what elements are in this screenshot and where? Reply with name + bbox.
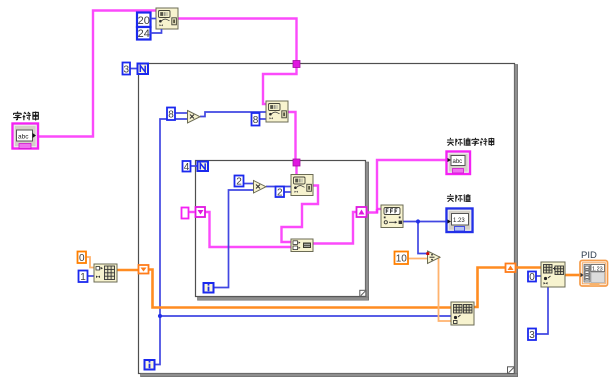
wire pink F1 out to outer tunnel xyxy=(178,19,297,62)
wire blue inner i to multiply2 xyxy=(214,190,253,288)
outer for-loop body xyxy=(139,64,518,377)
svg-text:0: 0 xyxy=(79,253,85,264)
PID array indicator xyxy=(580,261,608,287)
multiply node 2 xyxy=(254,181,267,194)
wire orange array left SR to replace node xyxy=(149,270,451,308)
shift register right pink xyxy=(357,207,367,217)
wire pink concat out to right shift reg xyxy=(313,212,357,244)
outer loop resize grip xyxy=(508,367,515,374)
wire blue multiply2 out to F3 xyxy=(266,186,291,188)
shift register right orange xyxy=(506,264,516,273)
constant 8 second xyxy=(252,113,260,126)
tunnel pink outer loop xyxy=(293,61,300,68)
i terminal outer loop xyxy=(145,360,155,370)
wire blue const0b to insert node xyxy=(536,275,541,277)
constant 4 (inner N) xyxy=(183,161,191,173)
wire blue const8b to F2 xyxy=(260,118,266,120)
string control 字符串 xyxy=(13,124,39,149)
wire blue outer i to multiply1 and array node xyxy=(155,119,187,365)
wire blue const3 to N xyxy=(130,68,137,70)
label actual value xyxy=(447,194,471,202)
svg-text:2: 2 xyxy=(277,187,283,198)
function F2 string subset xyxy=(266,101,288,122)
constant 2 second xyxy=(276,187,285,199)
concat strings node xyxy=(291,239,313,252)
wire orange array init to left shift reg xyxy=(117,269,138,272)
junction dot FractExp out xyxy=(416,219,420,223)
inner for-loop body xyxy=(196,161,369,301)
N terminal outer loop xyxy=(138,64,149,75)
FractExp string to number node xyxy=(381,205,403,228)
svg-text:2: 2 xyxy=(236,177,242,188)
constant 3 (outer N) xyxy=(123,63,131,76)
empty string constant xyxy=(182,208,189,219)
svg-text:abc: abc xyxy=(453,159,463,165)
svg-text:3: 3 xyxy=(124,65,130,76)
svg-text:3: 3 xyxy=(529,330,535,341)
svg-text:4: 4 xyxy=(184,162,190,173)
svg-text:1.23: 1.23 xyxy=(592,266,603,272)
wire pink right shift reg to FractExp and string indicator xyxy=(367,160,446,213)
wire blue FractExp out to numeric indicator xyxy=(403,221,446,223)
string indicator actual value string xyxy=(447,152,471,175)
replace array subset node xyxy=(451,302,474,325)
constant 1 blue xyxy=(79,271,88,284)
inner loop resize grip xyxy=(360,290,366,296)
constant 20 xyxy=(137,13,151,28)
svg-text:1.23: 1.23 xyxy=(453,218,465,224)
wire blue const8 to multiply1 xyxy=(175,112,187,114)
wire orange const10 to divide xyxy=(408,258,427,260)
constant 2 first xyxy=(235,176,244,188)
svg-text:24: 24 xyxy=(138,28,150,40)
wire orange array right SR to insert node xyxy=(515,266,541,269)
constant 10 orange xyxy=(395,252,409,265)
wire blue const2b to F3 xyxy=(284,191,291,193)
constant 0 orange xyxy=(78,252,87,265)
N terminal inner loop xyxy=(198,162,209,172)
wire blue const4 to inner N xyxy=(191,165,197,167)
tunnel pink inner loop xyxy=(293,159,300,166)
i terminal inner loop xyxy=(204,283,214,293)
divide node xyxy=(426,251,440,264)
wire blue branch down to divide xyxy=(418,222,427,254)
wire pink string control to F1 xyxy=(38,11,156,137)
svg-text:PID: PID xyxy=(581,250,597,261)
constant 3 blue right xyxy=(528,329,536,342)
wire blue const1 to init array xyxy=(88,275,94,277)
wire blue multiply1 out to F2 xyxy=(200,112,266,117)
wire pink inner tunnel to F3 top xyxy=(295,166,297,174)
svg-text:8: 8 xyxy=(253,115,259,126)
wire blue const3b to insert node xyxy=(536,287,548,334)
constant 0 blue right xyxy=(528,272,536,284)
svg-text:0: 0 xyxy=(529,272,535,283)
wire orange const0 to init array xyxy=(86,257,94,268)
constant 8 first xyxy=(167,108,175,121)
wire pink outer tunnel to F2 xyxy=(263,67,297,104)
svg-text:10: 10 xyxy=(396,254,408,265)
wire blue const2 to multiply2 xyxy=(244,183,253,185)
function F3 string subset xyxy=(291,175,313,196)
wire pink left shift reg to concat input2 xyxy=(205,212,291,247)
wire orange divide out down to replace node xyxy=(439,257,452,321)
initialize array node xyxy=(94,264,117,282)
wire blue 24 to F1 xyxy=(151,29,162,33)
svg-text:20: 20 xyxy=(138,15,150,27)
junction dot i-wire xyxy=(158,314,162,318)
svg-text:1: 1 xyxy=(80,272,86,283)
wire pink empty const to left SR xyxy=(189,211,195,213)
constant 24 xyxy=(137,27,151,40)
svg-text:abc: abc xyxy=(18,134,29,141)
label string control xyxy=(13,112,38,121)
multiply node 1 xyxy=(188,111,201,124)
wire orange array insert node to PID xyxy=(565,274,580,277)
shift register left pink xyxy=(196,207,206,217)
wire blue 20 to F1 xyxy=(151,18,157,20)
wire pink F3 out to concat input1 xyxy=(282,186,319,243)
label actual value string xyxy=(447,138,494,146)
numeric indicator actual value xyxy=(447,209,473,233)
wire orange array replace node out to right SR xyxy=(474,268,506,308)
svg-text:8: 8 xyxy=(168,110,174,121)
shift register left orange xyxy=(139,265,149,274)
wire pink F2 out to inner tunnel xyxy=(288,112,296,160)
insert into array node xyxy=(541,262,565,287)
function F1 string subset xyxy=(156,8,178,29)
